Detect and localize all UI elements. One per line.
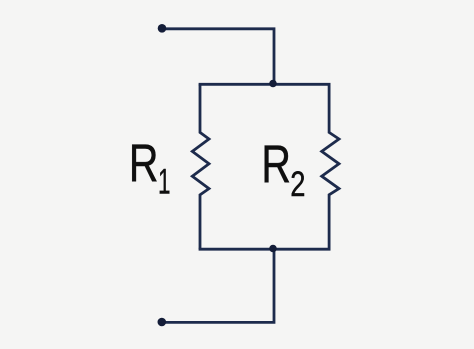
svg-text:R: R: [261, 135, 291, 194]
svg-text:1: 1: [158, 163, 171, 202]
svg-text:R: R: [129, 134, 159, 193]
svg-text:2: 2: [290, 165, 305, 204]
